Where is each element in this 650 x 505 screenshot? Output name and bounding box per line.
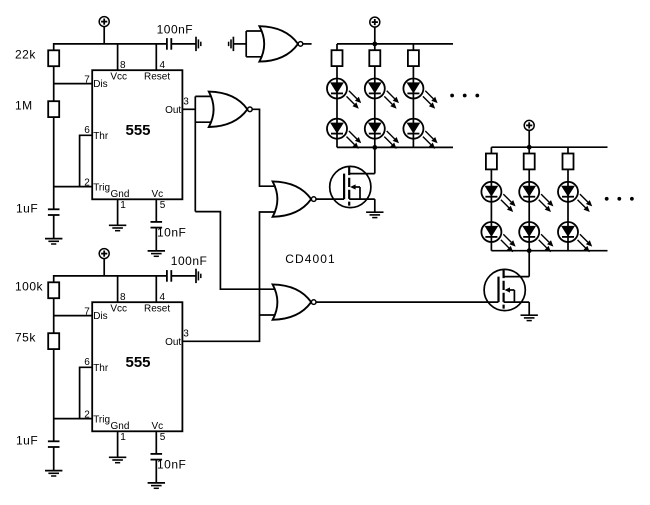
wire NOR2 output to MOSFET 1 gate <box>316 198 344 200</box>
LED (array 1 col 3 row 2) <box>403 119 437 149</box>
svg-text:1uF: 1uF <box>16 434 38 448</box>
ground (10nF) <box>148 483 165 488</box>
wire LED array 1 top rail <box>337 43 453 45</box>
LED (array 2 col 3 row 2) <box>558 222 592 252</box>
wire <box>103 258 105 276</box>
svg-text:Vc: Vc <box>152 189 164 200</box>
wire pin 7 Dis <box>54 83 92 85</box>
ground (1uF) <box>45 471 62 476</box>
NOR gate U3a (unused, CD4001) <box>259 26 302 61</box>
wire NOR3 bottom input stub <box>260 314 278 316</box>
ground (100nF) <box>196 269 201 283</box>
wire pin 6 Thr <box>80 367 93 418</box>
LED (array 1 col 1 row 1) <box>327 79 361 109</box>
ground (1uF) <box>45 239 62 244</box>
resistor 22k (timing, 555 #1) <box>48 50 59 66</box>
wire MOSFET 2 drain to array 2 bottom rail <box>528 251 530 277</box>
wire <box>374 27 376 44</box>
wire pin 2 Trig <box>54 418 92 420</box>
resistor 75k (timing, 555 #2) <box>48 333 59 349</box>
svg-text:5: 5 <box>160 200 166 211</box>
wire <box>567 169 569 250</box>
wire 555 #1 Out branch to NOR3 top input <box>195 212 277 290</box>
svg-text:4: 4 <box>160 292 166 303</box>
wire <box>412 66 414 147</box>
IC U1 555 timer body <box>92 70 182 199</box>
ground (MOSFET 2 source) <box>521 315 538 320</box>
wire pin 6 Thr <box>80 135 93 186</box>
wire MOSFET 2 source to ground <box>528 302 530 315</box>
wire input stub top <box>195 95 214 97</box>
LED (array 1 col 3 row 1) <box>403 79 437 109</box>
wire input stub bottom <box>246 56 264 58</box>
wire <box>528 169 530 250</box>
transistor Q1 N-MOSFET (drives LED array 1) <box>330 166 375 208</box>
svg-text:Reset: Reset <box>144 71 170 82</box>
capacitor 100nF (reset bypass, 555 #1) <box>167 38 171 50</box>
wire <box>53 448 55 471</box>
wire pin 7 Dis <box>54 315 92 317</box>
resistor (LED array 1 column 2) <box>374 44 376 50</box>
capacitor 100nF (reset bypass, 555 #2) <box>167 270 171 282</box>
svg-text:4: 4 <box>160 60 166 71</box>
power supply positive terminal (555 #2 Vcc) <box>99 249 109 259</box>
svg-text:22k: 22k <box>15 48 36 62</box>
svg-text:Gnd: Gnd <box>111 421 130 432</box>
svg-text:555: 555 <box>125 122 150 139</box>
wire <box>374 66 376 147</box>
svg-text:2: 2 <box>84 178 90 189</box>
wire <box>171 43 196 45</box>
wire Vcc/Reset rail <box>54 44 167 50</box>
wire <box>233 43 246 45</box>
wire LED array 1 bottom rail <box>337 146 453 148</box>
svg-text:75k: 75k <box>15 331 36 345</box>
svg-text:5: 5 <box>160 432 166 443</box>
LED (array 1 col 1 row 2) <box>327 119 361 149</box>
svg-text:CD4001: CD4001 <box>285 252 336 266</box>
ground (10nF) <box>148 251 165 256</box>
wire pin 1 Gnd <box>117 431 119 457</box>
node junction (array 2 top rail) <box>527 145 532 150</box>
svg-text:7: 7 <box>84 307 90 318</box>
wire pin 5 Vc <box>155 199 157 222</box>
ground (MOSFET 1 source) <box>366 212 383 217</box>
wire pin 4 drop <box>155 276 157 302</box>
wire pin 8 drop <box>117 44 119 70</box>
ground (pin 1) <box>109 457 126 462</box>
node junction (array 1 top rail) <box>372 42 377 47</box>
svg-text:Dis: Dis <box>93 79 107 90</box>
wire NOR3 output to MOSFET 2 gate <box>316 301 498 303</box>
svg-text:Reset: Reset <box>144 303 170 314</box>
wire input stub top <box>246 30 264 32</box>
capacitor 1uF (timing, 555 #2) <box>48 441 60 447</box>
node junction (array 1 bottom rail) <box>372 145 377 150</box>
capacitor 10nF (control voltage, 555 #2) <box>151 454 163 460</box>
wire pin 1 Gnd <box>117 199 119 225</box>
wire <box>53 117 55 209</box>
wire <box>155 460 157 482</box>
svg-text:10nF: 10nF <box>157 225 186 239</box>
svg-text:2: 2 <box>84 410 90 421</box>
svg-text:1uF: 1uF <box>16 202 38 216</box>
wire <box>53 216 55 239</box>
wire <box>490 169 492 250</box>
LED (array 2 col 2 row 1) <box>519 182 553 212</box>
resistor 100k (timing, 555 #2) <box>48 282 59 298</box>
ellipsis dots (array 2 continues) <box>605 197 634 201</box>
wire <box>155 228 157 250</box>
wire NOR inverter output down to NOR2 <box>252 109 277 186</box>
wire <box>528 130 530 147</box>
wire (unused gate output stub) <box>303 43 312 45</box>
svg-text:1: 1 <box>120 432 126 443</box>
wire <box>103 26 105 44</box>
wire 555 #1 Out to NOR inputs <box>182 108 195 110</box>
wire input stub bottom <box>195 121 214 123</box>
LED (array 1 col 2 row 2) <box>365 119 399 149</box>
resistor (LED array 1 column 3) <box>412 44 414 50</box>
wire 555 #2 Out to NOR2/NOR3 inputs <box>182 212 277 341</box>
svg-text:Thr: Thr <box>93 131 109 142</box>
LED (array 2 col 1 row 2) <box>481 222 515 252</box>
ground (unused gate inputs) <box>229 37 234 51</box>
svg-text:100k: 100k <box>15 280 44 294</box>
svg-text:1M: 1M <box>15 99 33 113</box>
wire MOSFET 1 drain to array 1 bottom rail <box>374 147 376 173</box>
svg-text:Dis: Dis <box>93 311 107 322</box>
resistor (LED array 2 column 2) <box>528 147 530 153</box>
svg-text:Vcc: Vcc <box>110 303 127 314</box>
power supply positive terminal (555 #1 Vcc) <box>99 17 109 27</box>
svg-text:Vcc: Vcc <box>110 71 127 82</box>
power supply positive terminal (LED array 2) <box>524 120 534 130</box>
LED (array 2 col 3 row 1) <box>558 182 592 212</box>
NOR gate U3b inverter (CD4001) <box>209 92 252 127</box>
wire LED array 2 bottom rail <box>491 250 607 252</box>
wire pin 4 drop <box>155 44 157 70</box>
wire <box>53 349 55 441</box>
transistor Q2 N-MOSFET (drives LED array 2) <box>484 269 529 311</box>
svg-text:Vc: Vc <box>152 421 164 432</box>
svg-text:6: 6 <box>84 357 90 368</box>
svg-text:Trig: Trig <box>93 414 110 425</box>
node junction (array 2 bottom rail) <box>527 248 532 253</box>
wire pin 8 drop <box>117 276 119 302</box>
svg-text:555: 555 <box>125 354 150 371</box>
svg-text:100nF: 100nF <box>157 22 194 36</box>
resistor (LED array 2 column 3) <box>567 147 569 153</box>
wire MOSFET 1 source to ground <box>374 199 376 212</box>
svg-text:3: 3 <box>183 329 189 340</box>
ground (pin 1) <box>109 225 126 230</box>
resistor 1M (timing, 555 #1) <box>48 101 59 117</box>
LED (array 2 col 1 row 1) <box>481 182 515 212</box>
wire LED array 2 top rail <box>491 146 607 148</box>
capacitor 10nF (control voltage, 555 #1) <box>151 222 163 228</box>
NOR gate U3c (CD4001) drives MOSFET 1 <box>273 181 316 216</box>
svg-text:8: 8 <box>120 292 126 303</box>
LED (array 1 col 2 row 1) <box>365 79 399 109</box>
wire Vcc/Reset rail <box>54 276 167 282</box>
wire <box>171 275 196 277</box>
svg-text:8: 8 <box>120 60 126 71</box>
wire pin 5 Vc <box>155 431 157 454</box>
wire <box>53 66 55 101</box>
resistor (LED array 1 column 1) <box>336 44 338 50</box>
resistor (LED array 2 column 1) <box>490 147 492 153</box>
wire <box>53 298 55 333</box>
svg-text:10nF: 10nF <box>157 457 186 471</box>
svg-text:Gnd: Gnd <box>111 189 130 200</box>
capacitor 1uF (timing, 555 #1) <box>48 209 60 215</box>
svg-text:6: 6 <box>84 125 90 136</box>
wire <box>336 66 338 147</box>
NOR gate U3d (CD4001) drives MOSFET 2 <box>273 284 316 319</box>
wire input tie bar (unused gate) <box>245 31 247 57</box>
ellipsis dots (array 1 continues) <box>450 94 479 98</box>
power supply positive terminal (LED array 1) <box>370 17 380 27</box>
svg-text:Trig: Trig <box>93 182 110 193</box>
svg-text:100nF: 100nF <box>171 254 208 268</box>
LED (array 2 col 2 row 2) <box>519 222 553 252</box>
wire input tie bar (NOR inverter) / 555 #1 Out branch <box>194 96 196 211</box>
svg-text:7: 7 <box>84 75 90 86</box>
svg-text:Thr: Thr <box>93 363 109 374</box>
svg-text:Out: Out <box>165 105 181 116</box>
svg-text:1: 1 <box>120 200 126 211</box>
svg-text:3: 3 <box>183 97 189 108</box>
IC U2 555 timer body <box>92 302 182 431</box>
svg-text:Out: Out <box>165 337 181 348</box>
wire pin 2 Trig <box>54 186 92 188</box>
ground (100nF) <box>196 37 201 51</box>
